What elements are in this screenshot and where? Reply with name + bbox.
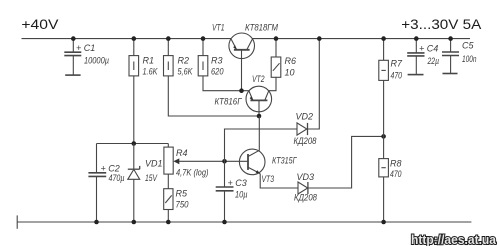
svg-text:VD2: VD2 <box>296 112 314 122</box>
node junction dot R5/bottom rail <box>166 220 171 225</box>
wire wiper up to VD2 anode <box>225 129 298 161</box>
node junction dot R3/rail <box>201 36 206 41</box>
svg-text:КД208: КД208 <box>294 136 317 146</box>
wire top rail right segment (VT1 collector to output) <box>252 38 470 40</box>
capacitor C1 <box>64 39 109 76</box>
diode VD3 KD208 <box>294 136 384 202</box>
svg-text:R7: R7 <box>391 59 403 69</box>
node junction dot VT2 base / R2 / VT3 collector <box>257 114 262 119</box>
svg-text:+ C1: + C1 <box>76 43 95 53</box>
svg-text:5,6K: 5,6K <box>178 67 194 77</box>
diode VD2 KD208 <box>294 39 320 146</box>
capacitor C5 100n <box>442 39 477 74</box>
svg-text:R1: R1 <box>143 56 155 66</box>
svg-text:470µ: 470µ <box>109 173 125 183</box>
transistor VT1 KT818GM (PNP pass) <box>212 23 278 91</box>
node junction dot R8/bottom rail <box>381 220 386 225</box>
node junction dot C4/rail <box>414 36 419 41</box>
resistor R5 750 <box>164 174 189 222</box>
node junction dot VD3 / R7-R8 midpoint <box>381 134 386 139</box>
svg-text:750: 750 <box>176 200 189 210</box>
wire bottom rail <box>17 221 471 223</box>
wire C2 top line <box>97 143 169 145</box>
svg-text:4,7K (log): 4,7K (log) <box>176 168 209 178</box>
wire VT3 emitter to VD3 <box>260 174 298 188</box>
svg-text:10: 10 <box>285 68 295 78</box>
svg-text:R6: R6 <box>285 56 297 66</box>
svg-text:КТ315Г: КТ315Г <box>272 156 297 166</box>
svg-text:470: 470 <box>390 169 402 179</box>
node junction dot VT1 base / R3 <box>239 88 244 93</box>
svg-text:R2: R2 <box>178 56 190 66</box>
svg-text:КД208: КД208 <box>294 193 317 203</box>
svg-text:+ C3: + C3 <box>228 178 247 188</box>
svg-text:15V: 15V <box>145 173 158 183</box>
resistor R7 470 <box>379 39 403 159</box>
svg-text:R3: R3 <box>211 56 223 66</box>
svg-text:КТ816Г: КТ816Г <box>215 97 243 107</box>
svg-text:620: 620 <box>211 67 224 77</box>
watermark http://aes.at.ua <box>411 232 497 246</box>
svg-text:C5: C5 <box>462 41 474 51</box>
resistor R2 5,6K <box>164 39 260 116</box>
svg-text:10µ: 10µ <box>235 190 248 200</box>
svg-text:VD3: VD3 <box>297 172 315 182</box>
node junction dot C5/rail <box>448 36 453 41</box>
svg-text:+ C4: + C4 <box>419 44 438 54</box>
svg-text:R8: R8 <box>390 159 402 169</box>
svg-text:VD1: VD1 <box>145 159 163 169</box>
svg-text:470: 470 <box>391 71 403 81</box>
node junction dot R7/rail <box>381 36 386 41</box>
svg-text:VT1: VT1 <box>212 23 225 33</box>
node junction dot VD2/rail <box>317 36 322 41</box>
resistor R3 620 <box>198 39 249 91</box>
svg-text:+40V: +40V <box>21 17 58 32</box>
transistor VT3 KT315G <box>239 149 297 184</box>
zener diode VD1 15V <box>128 144 163 223</box>
svg-text:22µ: 22µ <box>427 56 439 66</box>
svg-text:R5: R5 <box>176 189 188 199</box>
resistor R6 10 <box>269 39 296 91</box>
svg-text:+3...30V 5A: +3...30V 5A <box>401 17 481 32</box>
svg-text:VT2: VT2 <box>252 74 265 84</box>
transistor VT2 KT816G <box>215 74 272 116</box>
svg-text:http://aes.at.ua: http://aes.at.ua <box>411 232 497 246</box>
svg-text:VT3: VT3 <box>262 174 275 184</box>
svg-text:100n: 100n <box>462 54 477 64</box>
svg-text:R4: R4 <box>176 148 188 158</box>
svg-text:10000µ: 10000µ <box>84 56 109 66</box>
wire VT3 collector to VT2 base <box>258 116 260 150</box>
svg-text:1.6K: 1.6K <box>143 67 159 77</box>
node junction dot VD1/bottom rail <box>132 220 137 225</box>
capacitor C2 470µ <box>88 144 124 223</box>
svg-text:КТ818ГМ: КТ818ГМ <box>245 23 278 33</box>
node junction dot R1/rail <box>132 36 137 41</box>
node junction dot C2/bottom rail <box>94 220 99 225</box>
node junction dot VD1 top <box>132 141 137 146</box>
resistor R8 470 <box>379 159 402 223</box>
node junction dot R6/rail <box>274 36 279 41</box>
capacitor C3 10µ <box>216 161 248 222</box>
node junction dot C1/rail <box>71 36 76 41</box>
potentiometer R4 4,7K (log) <box>164 144 225 178</box>
resistor R1 1.6K <box>129 39 158 144</box>
capacitor C4 22µ <box>407 39 439 75</box>
node junction dot wiper/C3/VD2 <box>222 159 227 164</box>
node junction dot C3/bottom rail <box>222 220 227 225</box>
terminal tick bottom-left <box>16 215 18 228</box>
wire top rail left segment (+40V to VT1 emitter) <box>22 38 232 40</box>
wire R4 wiper to VT3 base <box>225 160 249 162</box>
svg-text:+ C2: + C2 <box>101 164 120 174</box>
node junction dot R2/rail <box>166 36 171 41</box>
